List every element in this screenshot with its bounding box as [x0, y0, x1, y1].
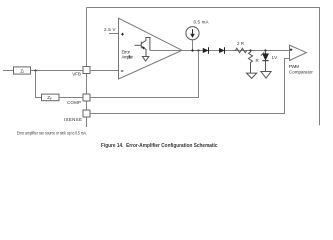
comparator U2 PWM triangle: [290, 45, 307, 60]
svg-text:1 V: 1 V: [272, 55, 278, 60]
transistor Q1 collector lead down: [141, 46, 146, 56]
resistor Zi box: [14, 67, 31, 74]
node rail/R divider: [249, 49, 251, 51]
diode D1: [203, 48, 208, 53]
ground under R: [247, 73, 257, 78]
IC border top and right: [87, 8, 320, 126]
current source I1 arrow: [192, 29, 194, 34]
wire ISENSE to comparator inverting input: [90, 59, 290, 114]
current source I1 0.5 mA circle: [186, 27, 199, 40]
svg-text:R: R: [256, 58, 260, 63]
node junction Zi/ZF: [34, 69, 36, 71]
wire input left: [3, 70, 14, 72]
resistor ZF box: [42, 94, 60, 101]
svg-text:2.5 V: 2.5 V: [104, 27, 116, 32]
wire ZF to COMP pin: [59, 97, 83, 99]
transistor Q1 base bar: [140, 42, 142, 49]
diode D3 1V clamp pointing down: [265, 51, 267, 54]
wire 2.5V stub to noninverting input: [109, 33, 119, 35]
wire junction down to ZF: [36, 71, 42, 98]
ground under D3: [261, 72, 271, 79]
wire error amp output rail: [150, 50, 290, 52]
svg-text:ZF: ZF: [47, 95, 52, 101]
wire VFB to error amp inverting input: [90, 70, 119, 72]
transistor Q1 emitter path to output: [141, 38, 150, 51]
svg-text:VFB: VFB: [72, 72, 81, 77]
node rail/COMP branch: [197, 49, 199, 51]
transistor Q1 arrowhead: [142, 46, 145, 49]
svg-text:COMP: COMP: [67, 100, 81, 105]
svg-text:Figure 14. Error-Amplifier Co: Figure 14. Error-Amplifier Configuration…: [101, 143, 218, 149]
pin COMP box: [83, 94, 90, 101]
svg-text:Comparator: Comparator: [289, 70, 314, 75]
node rail/1V clamp: [264, 49, 266, 51]
wire COMP branch down-left to COMP pin: [90, 51, 199, 98]
svg-text:ISENSE: ISENSE: [64, 117, 82, 122]
node rail/current source: [191, 49, 193, 51]
svg-text:PWM: PWM: [289, 64, 299, 69]
IC border left segments: [86, 8, 88, 128]
plus marker error amp: [121, 33, 124, 36]
plus marker PWM comparator: [290, 48, 293, 51]
pin VFB box: [83, 67, 90, 74]
wire Zi to VFB pin: [31, 70, 84, 72]
svg-text:Amplifier: Amplifier: [122, 54, 134, 59]
diode D2: [219, 48, 224, 53]
svg-text:0.5 mA: 0.5 mA: [194, 20, 209, 25]
wire current source to rail: [192, 40, 194, 51]
svg-text:Error amplifier can source or: Error amplifier can source or sink up to…: [17, 131, 87, 136]
pin ISENSE box: [83, 110, 90, 117]
svg-text:2 R: 2 R: [237, 41, 245, 46]
resistor R vertical zigzag: [249, 51, 253, 74]
svg-text:ZI: ZI: [20, 68, 24, 74]
resistor 2R zigzag: [235, 48, 246, 52]
transistor Q1 base lead: [135, 44, 142, 46]
ground under Q1: [142, 57, 149, 62]
op-amp U1 error amplifier triangle: [119, 18, 183, 79]
minus marker error amp: [121, 70, 124, 72]
